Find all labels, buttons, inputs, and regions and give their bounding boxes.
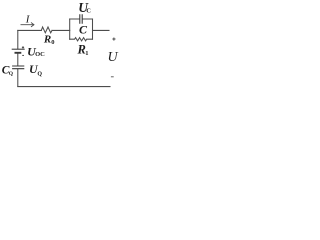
svg-text:C: C [86, 8, 91, 15]
svg-text:U: U [108, 50, 119, 65]
svg-text:OC: OC [35, 51, 45, 58]
svg-text:C: C [79, 22, 88, 36]
svg-text:0: 0 [51, 39, 54, 46]
svg-text:Q: Q [9, 71, 14, 77]
svg-text:1: 1 [85, 50, 88, 57]
svg-text:Q: Q [37, 71, 42, 77]
svg-text:R: R [43, 34, 51, 46]
